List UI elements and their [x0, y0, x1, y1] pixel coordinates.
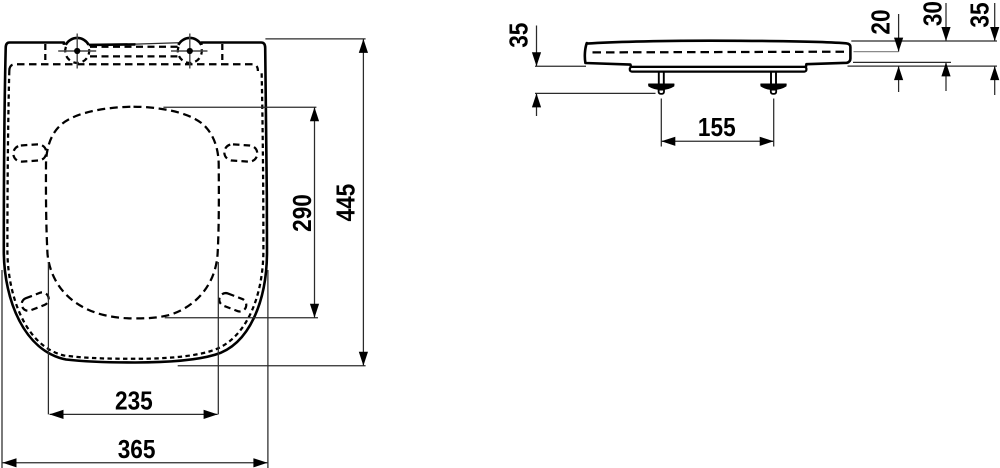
hidden hinge bar edge upper (dashed)	[90, 46, 178, 48]
hinge pin circle right (dashed arc)	[178, 47, 202, 63]
dim 290 arrow up	[310, 107, 319, 121]
hinge pin dot right	[187, 48, 193, 54]
hidden seat-ring outline top edge (dashed)	[9, 64, 258, 71]
svg-text:235: 235	[115, 387, 153, 416]
dim 35-left arrow up	[532, 93, 541, 107]
seat opening (hidden, dashed)	[46, 107, 219, 319]
extension line lid bottom edge	[853, 61, 951, 63]
seat ring bar (side view)	[630, 67, 807, 72]
svg-text:35: 35	[966, 2, 995, 27]
seat lid profile (side view outline)	[585, 41, 851, 68]
dim 20 dimension line upper	[898, 14, 900, 52]
svg-text:20: 20	[867, 9, 896, 34]
hinge pin dot left	[74, 48, 80, 54]
dim 235 dimension line	[50, 413, 218, 415]
dim 290 dimension line	[314, 107, 316, 317]
dim 365 arrow left	[3, 458, 17, 467]
dim 30 arrow up	[941, 62, 950, 76]
dim 445 arrow up	[359, 39, 368, 53]
hinge recess hidden wall left (dashed)	[44, 44, 46, 64]
rubber buffer upper-right (dashed)	[224, 144, 258, 162]
dim 35-left arrow down	[532, 52, 541, 66]
dim 155 arrow right	[760, 137, 774, 146]
hinge bump left (solid arc)	[66, 38, 89, 45]
dim 235 extension line left	[47, 262, 49, 414]
dim 365 dimension line	[3, 462, 268, 464]
dim 35-left dimension line lower	[536, 93, 538, 116]
dim 445 dimension line	[362, 39, 364, 366]
extension line lid underside (gray)	[854, 51, 899, 53]
fixing bolt left washer	[649, 84, 674, 89]
hinge recess hidden wall right (dashed)	[221, 44, 223, 64]
dim 30 arrow down	[941, 27, 950, 41]
fixing bolt left shaft	[659, 72, 664, 85]
dim 235 arrow left	[50, 410, 64, 419]
hinge bump right (solid arc)	[178, 38, 201, 45]
dim 155 arrow left	[661, 137, 675, 146]
dim 20 arrow down	[894, 38, 903, 52]
dim 290 extension line bottom	[165, 317, 318, 319]
extension line lid top (right)	[851, 40, 997, 42]
dim 35-left extension line bottom	[535, 92, 656, 94]
dim 365 arrow right	[253, 458, 267, 467]
dim 155 extension line left	[660, 99, 662, 147]
fixing bolt right shaft	[771, 72, 776, 85]
dim 35-right dimension line upper	[994, 3, 996, 41]
dim 365 extension line right	[267, 270, 269, 468]
hinge center mark right (crosshair)	[171, 34, 208, 69]
seat outer outline (top view)	[4, 43, 267, 363]
rubber buffer lower-left (dashed)	[20, 291, 51, 313]
dim 155 dimension line	[661, 140, 773, 142]
dim 155 extension line right	[773, 99, 775, 147]
dim 445 extension line bottom	[178, 365, 366, 367]
dim 235 arrow right	[204, 410, 218, 419]
dim 30 dimension line lower	[945, 62, 947, 91]
dim 20 dimension line lower	[898, 66, 900, 92]
extension line seat underside	[848, 65, 998, 67]
svg-text:30: 30	[919, 1, 948, 26]
fixing bolt right tip	[771, 90, 776, 94]
svg-text:35: 35	[505, 23, 534, 48]
dim 445 extension line top	[265, 38, 365, 40]
hidden hinge bar edge lower (dashed)	[90, 55, 177, 57]
dim 290 extension line top	[163, 106, 316, 108]
seat back edge between hinges (solid)	[89, 43, 136, 46]
svg-text:365: 365	[118, 436, 156, 465]
dim 445 arrow down	[359, 352, 368, 366]
seat back tangent edge (thin)	[136, 43, 179, 44]
dim 365 extension line left	[1, 270, 3, 468]
fixing bolt left tip	[659, 90, 664, 94]
dim 35-right arrow up	[990, 66, 999, 80]
hinge pin circle left (dashed arc)	[65, 47, 89, 63]
rubber buffer lower-right (dashed)	[217, 291, 248, 313]
svg-text:445: 445	[332, 184, 361, 222]
dim 35-right arrow down	[990, 27, 999, 41]
dim 35-left dimension line upper	[536, 26, 538, 67]
dim 35-left extension line top	[535, 65, 586, 67]
svg-text:155: 155	[698, 114, 736, 143]
lid hidden center line (dashed)	[593, 51, 846, 54]
fixing bolt right washer	[761, 84, 786, 89]
dim 235 extension line right	[217, 262, 219, 414]
hinge center mark left (crosshair)	[58, 34, 96, 69]
dim 290 arrow down	[310, 304, 319, 318]
svg-text:290: 290	[289, 194, 318, 232]
rubber buffer upper-left (dashed)	[13, 144, 47, 162]
hidden seat-ring outline sides and bottom (dashed)	[7, 71, 263, 359]
dim 30 dimension line upper	[945, 3, 947, 41]
dim 20 arrow up	[894, 66, 903, 80]
dim 35-right dimension line lower	[994, 66, 996, 95]
